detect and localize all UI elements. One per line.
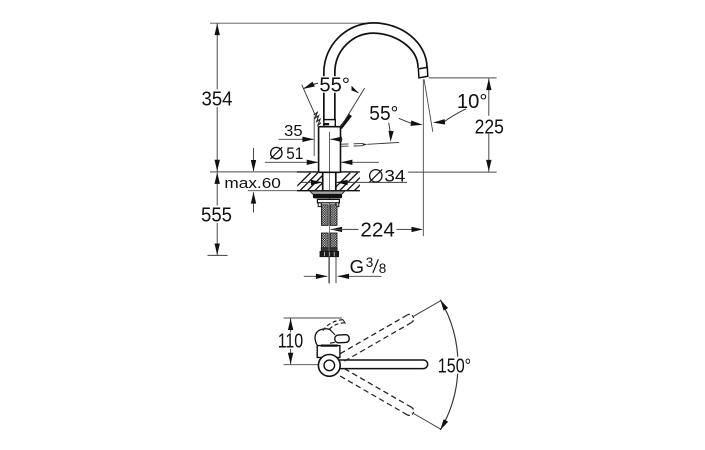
spray 10 deg line [424, 79, 433, 132]
swivel ring [318, 355, 340, 377]
handle axis dash line [341, 142, 399, 146]
dimension 555 [200, 172, 235, 255]
lever top view [315, 329, 349, 346]
dimension 35 [279, 116, 343, 156]
svg-text:225: 225 [475, 116, 504, 138]
svg-text:55°: 55° [319, 74, 350, 96]
angle 55 deg upper [302, 74, 365, 127]
shank left edge [322, 172, 324, 191]
svg-text:G: G [350, 256, 364, 277]
svg-text:555: 555 [201, 205, 232, 227]
body axis line [329, 132, 331, 172]
dashed arm upper [340, 314, 413, 361]
dimension 225 [408, 78, 506, 172]
cartridge collar [324, 120, 336, 127]
svg-text:354: 354 [202, 89, 233, 111]
lever dashed position [322, 320, 345, 332]
outlet vertical reference [422, 80, 424, 237]
faucet center line [329, 132, 331, 284]
dimension 354 [200, 23, 235, 172]
base washer [310, 191, 345, 198]
thread G3/8 label [304, 255, 386, 279]
spout mousseur outlet [418, 67, 427, 78]
angle 150 deg [436, 300, 473, 430]
angle 10 deg [433, 91, 488, 125]
svg-text:3: 3 [366, 255, 374, 270]
dimension 224 [331, 219, 423, 241]
supply hoses [321, 233, 337, 251]
svg-text:110: 110 [278, 330, 304, 352]
dimension max.60 [224, 148, 281, 213]
top height extension line [210, 22, 366, 24]
handle lever open [339, 114, 352, 129]
tail pipe [329, 257, 336, 284]
faucet body [319, 127, 341, 173]
countertop bottom line [248, 190, 360, 192]
handle tip marks [314, 112, 321, 125]
svg-text:8: 8 [379, 261, 387, 276]
radial line lower [414, 414, 441, 430]
spout tube arc [324, 23, 427, 120]
dashed arm lower [340, 369, 413, 416]
radial line upper [414, 300, 441, 316]
svg-text:35: 35 [284, 123, 303, 140]
countertop hatch right [332, 173, 380, 192]
svg-text:55°: 55° [369, 103, 398, 125]
countertop hatch left [292, 173, 340, 192]
angle 55 deg lower [369, 103, 423, 142]
svg-text:34: 34 [384, 166, 405, 185]
threaded studs [321, 205, 337, 226]
dimension dia 34 [302, 166, 407, 185]
G3/8 nut [320, 251, 339, 256]
svg-text:224: 224 [360, 219, 394, 241]
svg-text:10°: 10° [457, 91, 488, 113]
valve body top view [317, 346, 340, 358]
countertop top line [210, 171, 360, 173]
svg-text:51: 51 [286, 144, 303, 163]
svg-text:150°: 150° [438, 356, 471, 378]
mounting plate [317, 199, 339, 206]
dimension dia 51 [265, 144, 379, 165]
dimension 110 [276, 318, 342, 365]
svg-text:max.60: max.60 [224, 175, 281, 192]
shank right edge [335, 172, 337, 191]
spout arm top view [334, 360, 428, 369]
